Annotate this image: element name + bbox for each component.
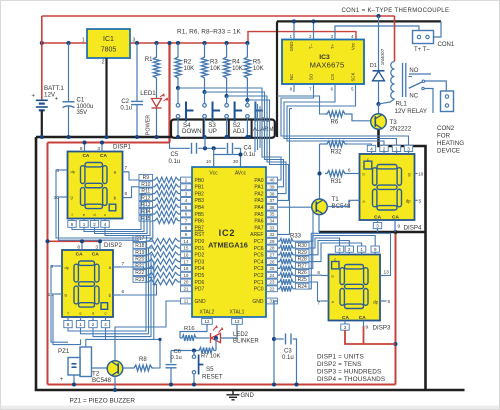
wire T1 emitter to black rail (318, 214, 320, 232)
svg-text:0.1u: 0.1u (282, 355, 294, 361)
svg-text:CA: CA (392, 215, 399, 221)
svg-text:32: 32 (270, 232, 275, 237)
pin DISP4 left 7 (a) (353, 199, 360, 201)
svg-text:CA: CA (374, 215, 381, 221)
svg-text:CA: CA (92, 251, 99, 257)
relay common arm (409, 82, 423, 88)
svg-text:PB6: PB6 (195, 219, 205, 225)
svg-text:27: 27 (270, 253, 275, 258)
wire black T1 emitter rail (319, 231, 426, 233)
svg-text:d: d (92, 310, 94, 315)
wire R6 to T3 base (347, 114, 371, 121)
svg-text:7: 7 (125, 165, 128, 171)
wire bundle verticals decor (254, 102, 256, 152)
IC IC3 MAX6675 body (282, 40, 364, 85)
svg-text:dp: dp (406, 198, 411, 203)
wire DISP2 a to R21 (120, 267, 153, 268)
svg-text:0.1u: 0.1u (169, 159, 181, 165)
svg-text:POWER: POWER (146, 115, 152, 135)
svg-text:25: 25 (270, 266, 275, 271)
svg-text:PZ1 = PIEZO BUZZER: PZ1 = PIEZO BUZZER (70, 398, 136, 405)
svg-text:13: 13 (384, 270, 390, 276)
svg-text:IC2: IC2 (219, 228, 236, 238)
wire T1 collector to DISP4 a (327, 200, 353, 206)
wire switch node to IC2 port (178, 88, 281, 180)
pin IC2 PA0 (pin 40) (267, 177, 278, 183)
svg-text:RL1: RL1 (396, 100, 408, 107)
svg-text:DISP1: DISP1 (113, 144, 131, 151)
wire red DISP2 anode rail (48, 240, 101, 242)
svg-text:PB4: PB4 (195, 205, 205, 211)
capacitor C3 0.1u (274, 338, 284, 340)
svg-text:19: 19 (184, 273, 189, 278)
wire DISP1 b to R10 (129, 187, 139, 198)
svg-text:PA1: PA1 (254, 185, 263, 191)
node S3 ground junction (202, 135, 206, 139)
svg-text:34: 34 (270, 219, 275, 224)
wire IC2 Vcc pin 10 (213, 148, 215, 167)
svg-text:R1, R6, R8–R33 = 1K: R1, R6, R8–R33 = 1K (177, 29, 242, 36)
battery BATT.1 12V (41, 16, 43, 100)
svg-text:C3: C3 (284, 349, 292, 355)
node C1 ground junction (66, 135, 70, 139)
pin IC2 GND (pin 31) (267, 298, 278, 304)
svg-text:PC0: PC0 (254, 287, 264, 293)
display DISP4 digit segments (364, 161, 402, 210)
wire R6 left to ground riser (277, 96, 325, 114)
transistor T2 BC548 (114, 330, 116, 361)
display DISP1 7-segment body (68, 152, 123, 219)
svg-text:28: 28 (270, 246, 275, 251)
svg-text:PC2: PC2 (254, 273, 264, 279)
wire R29 to DISP3 pin2 (309, 241, 349, 255)
pin IC2 PC0 (pin 22) (267, 286, 278, 292)
capacitor C1 1000u 35V (68, 43, 70, 101)
resistor R21 (133, 263, 147, 269)
svg-text:PB1: PB1 (195, 185, 205, 191)
svg-text:DISP3: DISP3 (373, 325, 391, 332)
svg-text:+: + (55, 97, 59, 103)
svg-text:39: 39 (270, 185, 275, 190)
pin DISP4 top pins 4 2 1 3 (367, 145, 375, 151)
svg-text:R1: R1 (145, 57, 153, 63)
connector CON2 heating device (441, 91, 454, 112)
node cap gnd tap (203, 146, 207, 150)
pin DISP4 bottom CA pins 3 and 9 (377, 220, 379, 223)
wire red 5V drop to display block (168, 43, 170, 143)
node C6 ground junction (169, 382, 173, 386)
svg-text:R29: R29 (298, 250, 307, 256)
svg-text:C2: C2 (121, 99, 129, 105)
svg-text:CON1 = K–TYPE THERMOCOUPLE: CON1 = K–TYPE THERMOCOUPLE (342, 8, 450, 14)
svg-text:+: + (60, 377, 64, 383)
node LED1 ground junction (154, 135, 158, 139)
resistor R23 (133, 276, 147, 282)
wire bundle to AREF (277, 109, 289, 235)
svg-text:R23: R23 (135, 277, 144, 283)
pin IC2 PC6 (pin 28) (267, 245, 278, 251)
pin IC2 PD0 (pin 14) (181, 238, 192, 244)
svg-text:R15: R15 (141, 216, 150, 222)
pin DISP1 b right (6) (123, 197, 130, 199)
svg-text:3: 3 (97, 146, 100, 152)
resistor R15 (139, 215, 153, 221)
svg-text:CON1: CON1 (438, 42, 455, 48)
svg-text:CA: CA (76, 251, 83, 257)
svg-text:R22: R22 (135, 270, 144, 276)
svg-text:Vcc: Vcc (351, 42, 356, 50)
resistor R13 (139, 202, 153, 208)
wire C4 to Vcc pins (234, 148, 240, 167)
wire R27 to DISP3 pin9 (309, 236, 375, 269)
display DISP1 digit segments (81, 163, 116, 211)
resistor R8 (123, 367, 132, 369)
pin DISP2 CA top pins 8 and 3 (81, 241, 83, 250)
pin IC2 GND (pin 11) (181, 298, 192, 304)
diode D1 1N4007 (378, 16, 380, 71)
node S5 ground junction (192, 382, 196, 386)
resistor R2 10K (177, 43, 179, 55)
svg-text:GND: GND (195, 299, 207, 305)
wire R24 to DISP3 right 13 (309, 233, 391, 288)
pin DISP1 CA top pins 8 and 3 (84, 143, 86, 152)
pin DISP1 a right (7) (123, 171, 130, 173)
IC U2 ATMEGA16 body (192, 167, 266, 317)
resistor R30 (278, 245, 295, 251)
svg-text:PC3: PC3 (254, 266, 264, 272)
wire IC3 T- pin2 up to ground line (313, 21, 315, 39)
svg-text:R14: R14 (141, 209, 150, 215)
pin DISP3 right 5 (dp) (380, 300, 387, 302)
wire 12V red top rail (42, 15, 395, 17)
pin IC2 PC4 (pin 26) (267, 259, 278, 265)
resistor R26 (278, 272, 295, 278)
svg-text:PZ1: PZ1 (58, 348, 70, 355)
pin IC2 PD2 (pin 16) (181, 252, 192, 258)
resistor R9 (139, 174, 153, 180)
ground GND symbol (232, 390, 234, 395)
svg-text:2N2222: 2N2222 (390, 126, 412, 133)
pin DISP4 right 10 (g) (415, 173, 418, 175)
svg-text:R4: R4 (232, 60, 240, 66)
pin IC2 PB3 (pin 4) (181, 198, 192, 204)
resistor R16 (180, 335, 198, 341)
wire black ground left riser from battery (35, 137, 38, 390)
svg-text:BLINKER: BLINKER (233, 339, 259, 345)
capacitor C5 0.1u (191, 143, 193, 154)
wire buzzer to T2 (92, 367, 107, 369)
switch S4 DOWN pushbutton (177, 88, 179, 103)
svg-text:MAX6675: MAX6675 (310, 61, 345, 70)
wire DISP3 CA to red riser (345, 330, 396, 344)
display DISP3 7-segment body (329, 255, 381, 321)
resistor R3 10K (204, 43, 206, 55)
svg-text:R25: R25 (298, 277, 307, 283)
capacitor C2 0.1u (136, 43, 138, 101)
wire switch node to IC2 port (247, 100, 288, 200)
wire black ground from IC3/CON1 down (277, 20, 441, 22)
pin DISP3 left 7 (a) (322, 300, 329, 302)
svg-text:PD0: PD0 (195, 239, 205, 245)
svg-text:PA3: PA3 (254, 198, 263, 204)
svg-text:PB0: PB0 (195, 178, 205, 184)
resistor R5 10K (246, 43, 248, 55)
pin IC2 PA2 (pin 38) (267, 191, 278, 197)
svg-text:R31: R31 (331, 179, 343, 185)
svg-text:DISP3 = HUNDREDS: DISP3 = HUNDREDS (317, 369, 381, 376)
wire red border left of display block (47, 143, 49, 385)
svg-text:g: g (65, 292, 67, 297)
svg-text:Vcc: Vcc (209, 171, 218, 177)
svg-text:20: 20 (184, 280, 189, 285)
svg-text:R24: R24 (298, 284, 307, 290)
node 5V rail junction dots (40, 41, 44, 45)
svg-text:c: c (367, 156, 369, 161)
svg-text:XTAL2: XTAL2 (200, 310, 215, 316)
svg-text:PB5: PB5 (195, 212, 205, 218)
pin DISP3 bottom CA pins 3 and 9 (344, 321, 346, 325)
pin DISP3 right 13 (g) (380, 275, 387, 277)
svg-text:IC1: IC1 (103, 36, 114, 43)
wire IC3 NC stub (293, 84, 295, 92)
wire IC3 SCK to DISP4 pin2 bundle (287, 84, 384, 145)
svg-text:10K: 10K (232, 66, 243, 72)
resistor R20 (133, 256, 147, 262)
pin DISP3 top pins 4 2 1 9 (335, 246, 343, 252)
svg-text:DEVICE: DEVICE (437, 148, 460, 155)
resistor R27 (278, 266, 295, 272)
svg-text:36: 36 (270, 205, 275, 210)
svg-text:9: 9 (366, 325, 369, 331)
svg-text:C4: C4 (244, 145, 252, 151)
svg-text:11: 11 (184, 299, 189, 304)
svg-text:PC4: PC4 (254, 259, 264, 265)
svg-text:PA6: PA6 (254, 219, 263, 225)
pin DISP4 right 5 (dp) (415, 199, 418, 201)
pin IC2 PB6 (pin 7) (181, 218, 192, 224)
wire R8 to PD nest (154, 339, 160, 368)
wire DISP1 d to R13 (95, 207, 151, 233)
wire IC3 T+ pin3 to CON1 (335, 26, 419, 40)
node R5 switch junction (245, 98, 249, 102)
relay NO contact (409, 73, 431, 75)
svg-text:40: 40 (270, 178, 275, 183)
resistor R18 (133, 242, 147, 248)
pin IC2 PC5 (pin 27) (267, 252, 278, 258)
wire 5V red rail (42, 42, 248, 44)
display DISP4 7-segment body (360, 154, 415, 220)
svg-text:10K: 10K (184, 66, 195, 72)
svg-text:R8: R8 (139, 357, 147, 363)
svg-text:23: 23 (270, 280, 275, 285)
node C3 branch junction (272, 337, 276, 341)
node Vcc pin junctions (212, 146, 216, 150)
svg-text:C1: C1 (77, 98, 85, 104)
svg-text:AVcc: AVcc (235, 171, 247, 177)
wire DISP1 e to R12 (84, 200, 148, 231)
wire R30 to DISP3 pin4 (309, 238, 340, 248)
svg-text:R16: R16 (184, 326, 195, 332)
wire DISP2 g chain (53, 294, 81, 345)
svg-text:PA0: PA0 (254, 178, 263, 184)
svg-text:SCK: SCK (351, 72, 356, 81)
pin DISP4 left 6 (353, 173, 360, 175)
svg-text:R2: R2 (184, 60, 192, 66)
pin DISP3 left 6 (322, 275, 329, 277)
svg-text:RST: RST (195, 232, 205, 238)
node R7 junction on LED line (214, 336, 218, 340)
svg-text:9: 9 (398, 224, 401, 230)
svg-text:3: 3 (133, 38, 136, 44)
pin DISP2 bottom pins 9 1 2 4 (67, 317, 69, 321)
svg-text:6: 6 (348, 168, 351, 174)
wire cap mid node (198, 147, 226, 149)
svg-text:ALARM: ALARM (253, 127, 274, 133)
svg-text:DISP2 = TENS: DISP2 = TENS (317, 361, 361, 368)
svg-text:LED1: LED1 (140, 90, 156, 97)
svg-text:PA5: PA5 (254, 212, 263, 218)
resistor R14 (139, 208, 153, 214)
wire IC2 GND pin31 down (274, 301, 277, 385)
node red border junctions (45, 239, 49, 243)
pin IC2 PC1 (pin 23) (267, 279, 278, 285)
pin IC2 PD3 (pin 17) (181, 259, 192, 265)
pin IC2 PA6 (pin 34) (267, 218, 278, 224)
svg-text:PD1: PD1 (195, 246, 205, 252)
pin IC2 XTAL2 (pin 12) (202, 319, 213, 325)
resistor R1 (156, 43, 158, 55)
pin IC2 AREF (pin 32) (267, 232, 278, 238)
svg-text:29: 29 (270, 239, 275, 244)
wire DISP1 dp chain down (56, 170, 153, 238)
svg-text:22: 22 (270, 287, 275, 292)
svg-text:c: c (334, 257, 336, 262)
svg-text:CS: CS (330, 74, 335, 80)
wire black bottom ground rail (35, 389, 465, 392)
wire red right riser to DISP4 (395, 232, 397, 385)
pin IC2 PB5 (pin 6) (181, 211, 192, 217)
wire R32 to DISP4 pin4 (347, 144, 372, 145)
wire DISP1 a to R9 (129, 172, 139, 180)
pin DISP2 b right (6) (113, 294, 120, 296)
wire 5V branch to IC3 Vcc (248, 32, 356, 43)
svg-text:CA: CA (82, 153, 89, 159)
pin IC2 PC3 (pin 25) (267, 266, 278, 272)
wire IC3 SO to DISP4 pin3 bundle (281, 84, 409, 145)
svg-text:GND: GND (289, 42, 294, 52)
wire DISP2 c to R20 (106, 262, 154, 340)
wire buzzer plus to red rail (73, 375, 75, 385)
node R3 switch junction (202, 90, 206, 94)
wire buzzer top to port (86, 339, 106, 347)
svg-text:FOR: FOR (437, 133, 451, 140)
resistor R22 (133, 270, 147, 276)
node C2 ground junction (135, 135, 139, 139)
svg-text:NO: NO (409, 68, 418, 74)
node 12V rail dot at D1 (376, 14, 380, 18)
svg-text:10K: 10K (253, 66, 264, 72)
svg-text:GND: GND (252, 299, 264, 305)
svg-text:R33: R33 (290, 234, 302, 240)
svg-text:AREF: AREF (250, 232, 263, 238)
wire DISP1 c to R14 (105, 214, 153, 236)
svg-text:0.1u: 0.1u (171, 355, 182, 361)
resistor R6 (325, 111, 347, 117)
relay RL1 core (402, 63, 404, 97)
svg-text:1: 1 (82, 38, 85, 44)
svg-text:+: + (31, 94, 35, 100)
pin IC2 PA5 (pin 35) (267, 211, 278, 217)
pin IC2 PD7 (pin 21) (181, 286, 192, 292)
svg-text:R6: R6 (331, 120, 339, 126)
svg-text:5: 5 (388, 299, 391, 305)
svg-text:10: 10 (418, 172, 424, 178)
svg-text:12V RELAY: 12V RELAY (395, 108, 428, 115)
svg-text:RESET: RESET (202, 374, 223, 381)
svg-text:R18: R18 (135, 243, 144, 249)
svg-text:10: 10 (206, 159, 212, 164)
wire R26 to DISP3 left 6 (309, 274, 322, 276)
wire R25 to DISP3 left 7 (309, 282, 322, 301)
svg-text:R9: R9 (143, 175, 150, 181)
resistor R7 10K (215, 338, 217, 351)
svg-text:8: 8 (77, 245, 80, 251)
resistor R29 (278, 252, 295, 258)
svg-text:DOWN: DOWN (182, 128, 202, 135)
display DISP2 7-segment body (62, 250, 113, 317)
pin IC2 PD6 (pin 20) (181, 279, 192, 285)
svg-text:T1: T1 (332, 196, 340, 203)
capacitor C6 0.1u (170, 351, 172, 364)
svg-text:7: 7 (122, 261, 125, 267)
display DISP2 digit segments (74, 261, 108, 309)
wire DISP2 d to R19 (93, 255, 153, 337)
svg-text:3: 3 (95, 245, 98, 251)
wire R7 to C6 (171, 350, 197, 352)
keypad label box around switch labels (171, 120, 275, 138)
node T1 R31 junction (317, 171, 321, 175)
svg-text:PB2: PB2 (195, 191, 205, 197)
svg-text:38: 38 (270, 191, 275, 196)
wire R22 stub (149, 275, 153, 278)
svg-text:CA: CA (342, 315, 349, 321)
resistor R25 (278, 279, 295, 285)
pin IC2 PB7 (pin 8) (181, 225, 192, 231)
svg-text:8: 8 (80, 146, 83, 152)
wire IC3 CS to DISP4 pin1 bundle (284, 84, 397, 145)
pin DISP1 bottom pins 9 1 2 4 (71, 219, 73, 221)
resistor R17 (133, 236, 147, 242)
node S5 top junction (192, 348, 196, 352)
pin IC2 PB1 (pin 2) (181, 184, 192, 190)
switch S5 RESET pushbutton (193, 351, 195, 356)
pin IC2 PD1 (pin 15) (181, 245, 192, 251)
pin DISP2 dp left (5) (55, 265, 62, 267)
op-amp IC1 7805 regulator (87, 29, 130, 58)
wire DISP2 e to R18 (81, 248, 153, 334)
svg-text:PC7: PC7 (254, 239, 264, 245)
wire IC3 GND pin1 up to ground line (293, 21, 295, 39)
svg-text:17: 17 (184, 259, 189, 264)
wire relay coil to D1 junction (379, 99, 395, 104)
svg-text:2: 2 (102, 60, 105, 66)
wire DISP1 g chain down (59, 197, 140, 240)
node C3 ground junctions (272, 382, 276, 386)
svg-text:ADJ: ADJ (233, 128, 245, 135)
svg-text:24: 24 (270, 273, 275, 278)
svg-text:R3: R3 (210, 60, 218, 66)
switch S3 UP pushbutton (204, 92, 206, 103)
